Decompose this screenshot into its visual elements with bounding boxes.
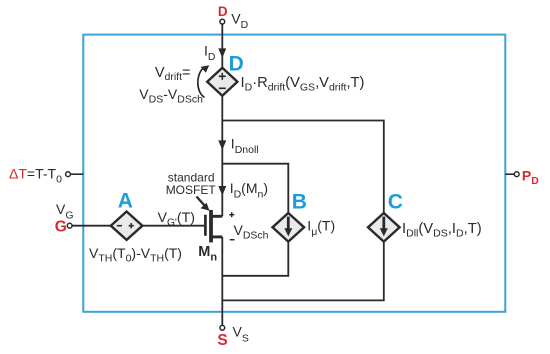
- dependent source D (diamond): [207, 68, 237, 96]
- svg-text:C: C: [388, 191, 403, 214]
- dependent source C (diamond): [368, 213, 400, 242]
- svg-text:S: S: [217, 332, 227, 349]
- labels + V_DSch -: [229, 212, 234, 240]
- svg-text:B: B: [292, 190, 307, 213]
- current arrow I_Dnoll: [218, 140, 226, 150]
- current arrow I_D: [218, 48, 226, 58]
- node P_D: [505, 173, 514, 175]
- svg-text:A: A: [118, 189, 133, 212]
- pointer arrow to MOSFET gate: [197, 197, 205, 206]
- svg-text:D: D: [218, 4, 228, 19]
- plus sign inside D: [219, 73, 226, 89]
- svg-text:MOSFET: MOSFET: [166, 183, 217, 197]
- wire branch B top: [222, 164, 288, 214]
- wire branch B bottom: [222, 242, 288, 276]
- dependent source A (diamond): [111, 212, 143, 240]
- model boundary box: [83, 35, 505, 312]
- arrow inside B: [287, 217, 290, 230]
- wire A to MOSFET gate, label V_G'(T): [142, 225, 204, 227]
- transistor Mn (MOSFET symbol): [205, 210, 222, 243]
- svg-text:G: G: [55, 219, 67, 236]
- node S: [220, 325, 225, 330]
- curved arrow for V_drift: [198, 69, 205, 98]
- wire branch C bottom: [222, 242, 383, 301]
- arrow inside C: [382, 217, 385, 230]
- wire diamond D to MOSFET drain: [221, 96, 223, 217]
- wire MOSFET source down to node S: [221, 237, 223, 326]
- svg-text:D: D: [229, 52, 244, 75]
- wire D node to diamond D: [221, 24, 223, 69]
- dependent source B (diamond): [273, 213, 305, 242]
- wire G to source A: [72, 225, 111, 227]
- wire branch C top: [222, 121, 383, 214]
- current arrow I_D(Mn): [218, 186, 226, 196]
- svg-text:VG'(T): VG'(T): [158, 210, 195, 229]
- node D: [220, 19, 225, 24]
